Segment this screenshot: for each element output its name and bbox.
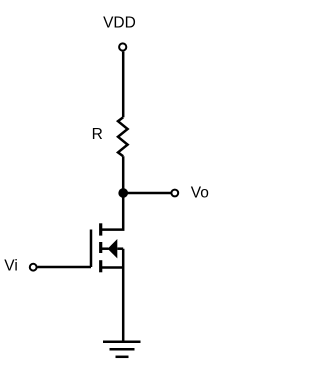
svg-text:Vi: Vi	[4, 258, 18, 275]
svg-text:R: R	[92, 126, 103, 143]
svg-text:VDD: VDD	[103, 14, 136, 31]
svg-text:Vo: Vo	[191, 185, 209, 202]
